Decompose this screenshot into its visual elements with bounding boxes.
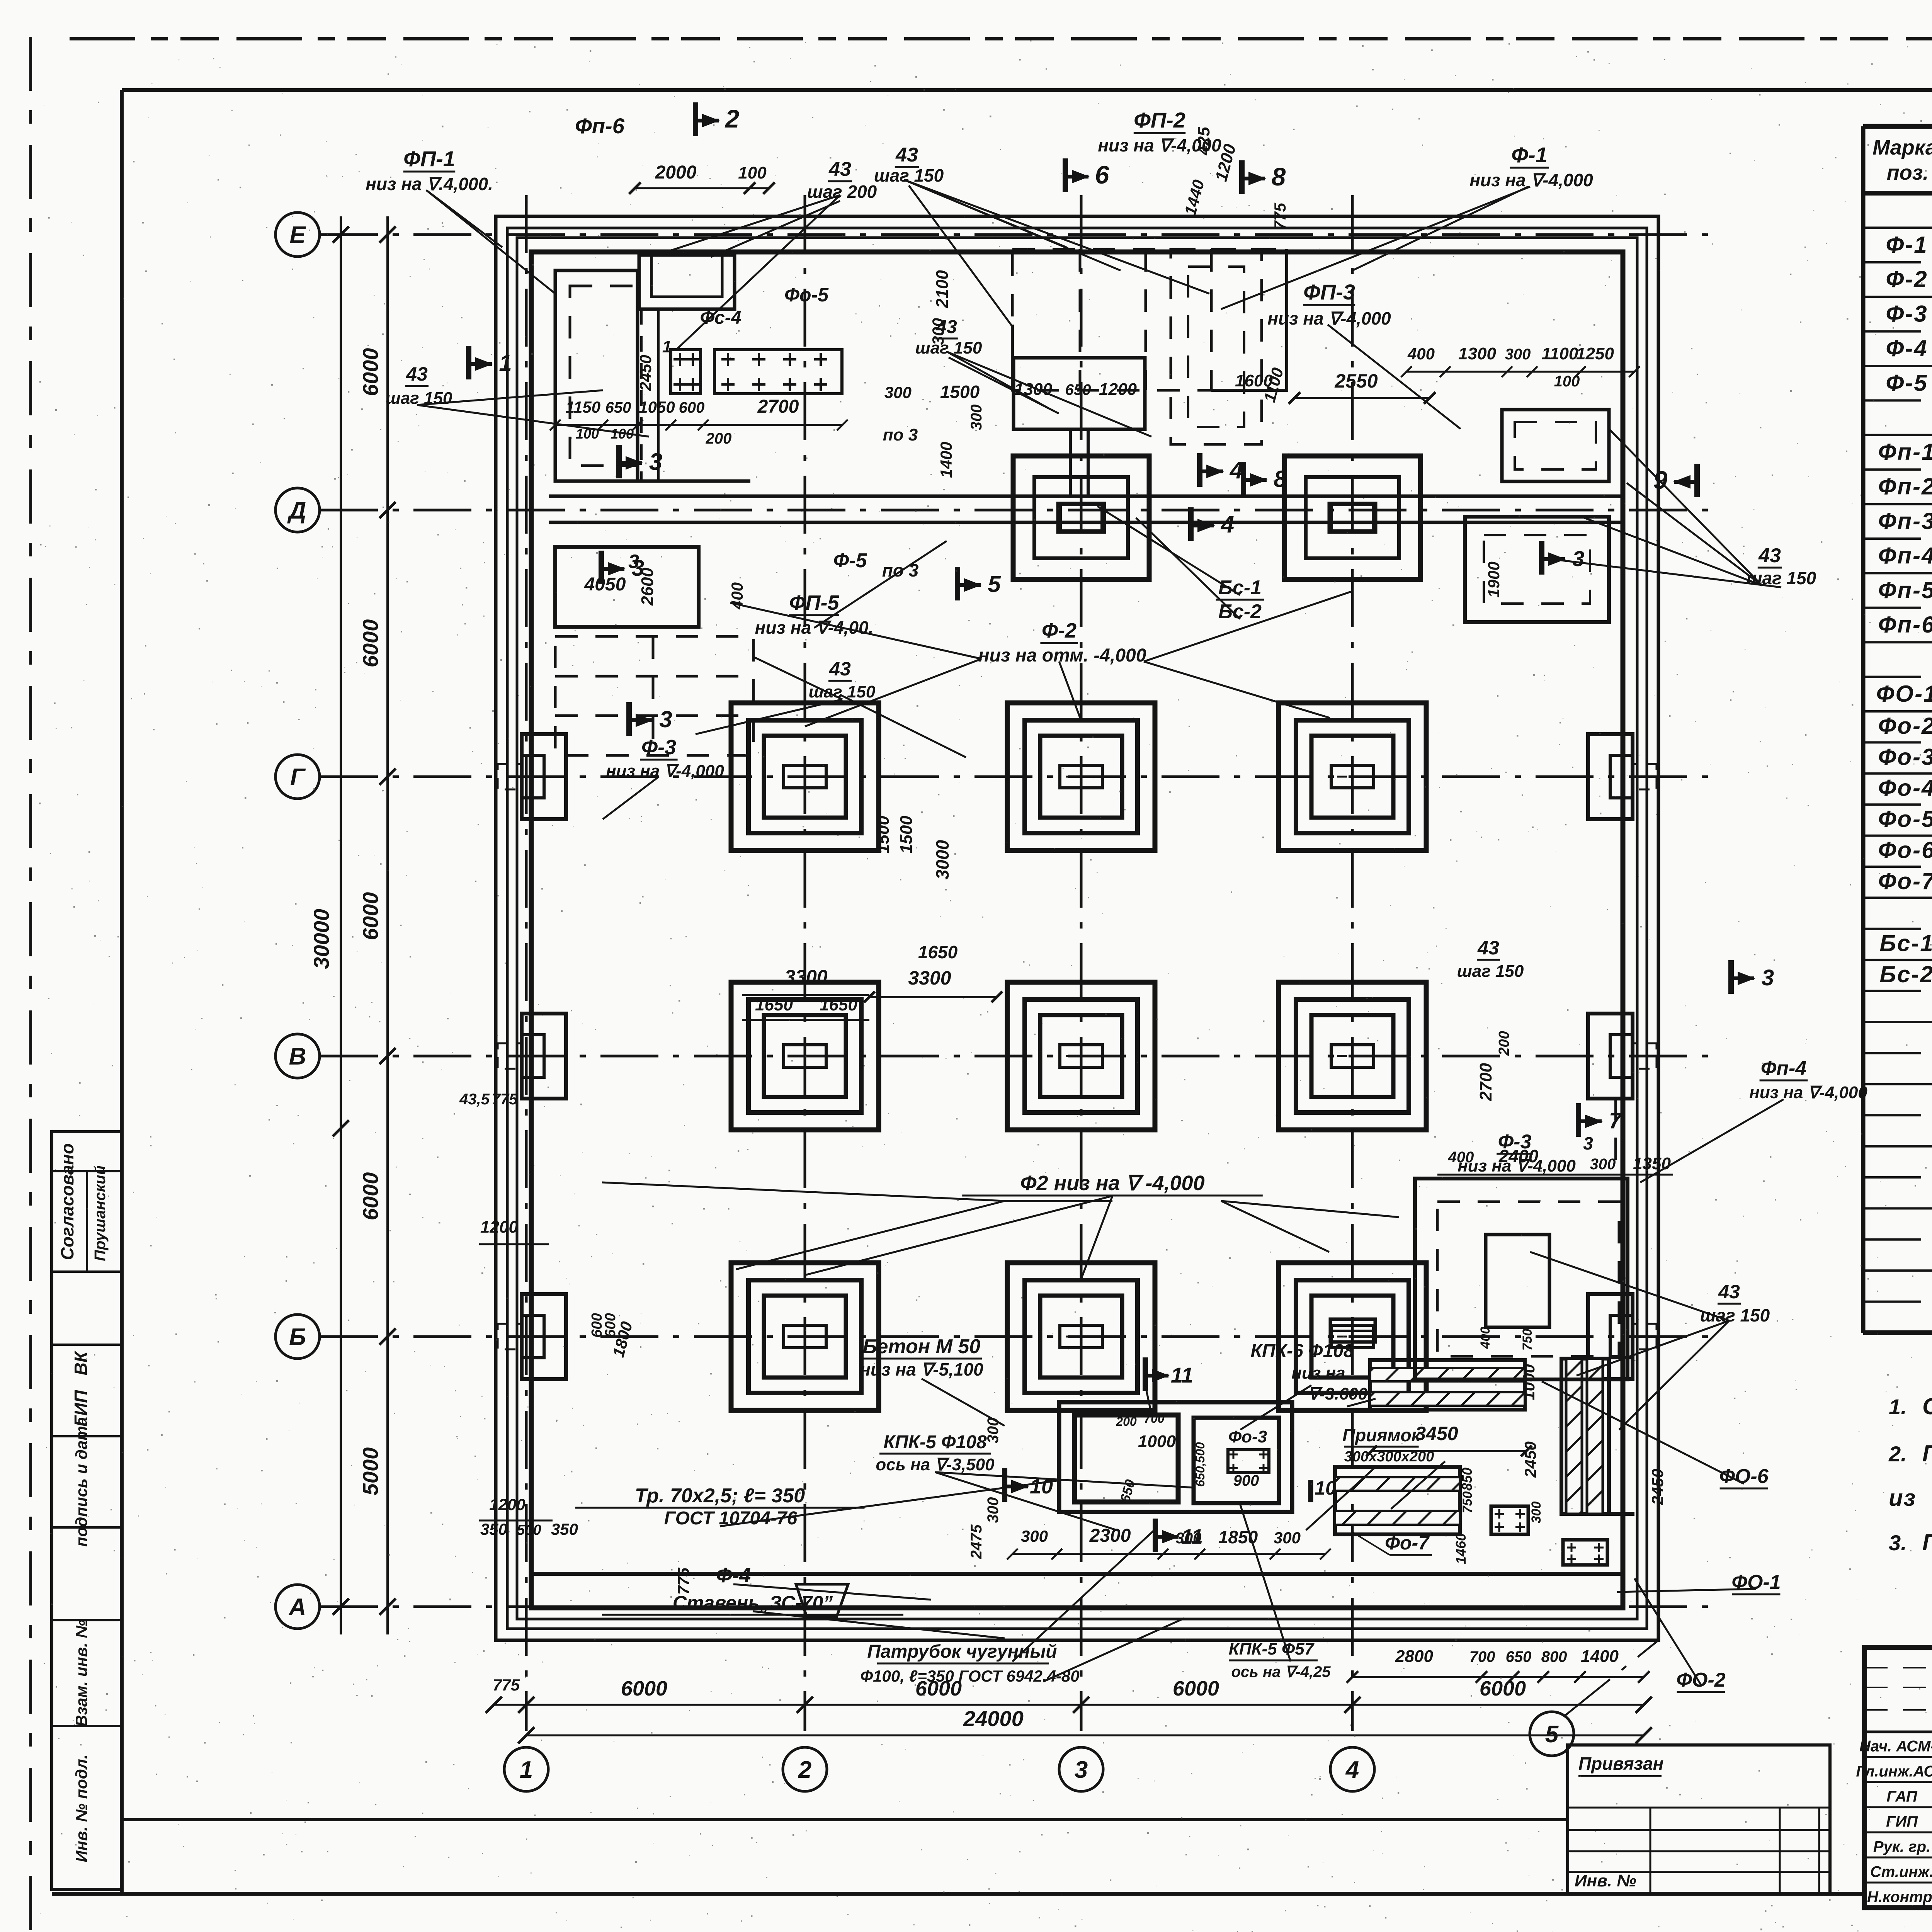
svg-text:5: 5 (988, 571, 1001, 597)
svg-text:Ф2 низ на ∇ -4,000: Ф2 низ на ∇ -4,000 (1020, 1172, 1204, 1195)
svg-text:200: 200 (1496, 1031, 1512, 1056)
svg-text:1150: 1150 (566, 398, 600, 416)
svg-text:низ на ∇.4,000.: низ на ∇.4,000. (366, 174, 493, 194)
svg-text:1500: 1500 (897, 816, 916, 854)
svg-text:Ф-4: Ф-4 (1886, 335, 1928, 361)
svg-text:1200: 1200 (489, 1495, 525, 1514)
svg-text:4050: 4050 (584, 574, 626, 595)
svg-text:2800: 2800 (1395, 1647, 1433, 1666)
svg-text:ФП-5: ФП-5 (789, 591, 839, 614)
svg-text:шаг 150: шаг 150 (1747, 568, 1816, 588)
svg-text:Фо-7: Фо-7 (1878, 868, 1932, 894)
svg-text:Ф-1: Ф-1 (1511, 143, 1548, 167)
svg-text:Фо-4: Фо-4 (1878, 775, 1932, 801)
svg-text:низ на ∇-4,00.: низ на ∇-4,00. (755, 617, 874, 638)
svg-text:Ф-5: Ф-5 (1886, 370, 1928, 396)
svg-text:Ф-3: Ф-3 (641, 736, 676, 759)
svg-text:600: 600 (679, 399, 705, 416)
svg-text:∇-3.600: ∇-3.600 (1308, 1384, 1368, 1403)
svg-text:200: 200 (706, 430, 732, 447)
svg-text:2450: 2450 (636, 355, 655, 391)
svg-text:1650: 1650 (820, 995, 857, 1014)
svg-text:100: 100 (1554, 373, 1580, 390)
svg-text:1300: 1300 (1014, 380, 1052, 399)
svg-text:100: 100 (611, 426, 634, 442)
svg-text:2450: 2450 (1521, 1441, 1539, 1478)
svg-text:2300: 2300 (1089, 1526, 1131, 1546)
svg-text:30000: 30000 (309, 909, 333, 969)
svg-text:300: 300 (929, 318, 947, 345)
svg-text:2400: 2400 (1498, 1146, 1539, 1166)
svg-text:3: 3 (1572, 546, 1584, 571)
svg-text:6000: 6000 (1480, 1677, 1526, 1700)
svg-text:Инв. № подл.: Инв. № подл. (72, 1754, 90, 1862)
svg-text:400: 400 (1448, 1149, 1474, 1166)
svg-text:Бс-2: Бс-2 (1879, 961, 1932, 987)
svg-text:1: 1 (499, 350, 512, 376)
svg-text:шаг 150: шаг 150 (874, 165, 944, 185)
svg-text:43: 43 (829, 658, 851, 680)
svg-text:Тр. 70х2,5; ℓ= 350: Тр. 70х2,5; ℓ= 350 (635, 1485, 805, 1507)
svg-text:ось на ∇-3,500: ось на ∇-3,500 (876, 1455, 995, 1474)
svg-text:Сечение 1-1 ÷ 9-9 см.л.АС-9,: Сечение 1-1 ÷ 9-9 см.л.АС-9, 10-10 ; 11-… (1922, 1393, 1932, 1419)
svg-text:1250: 1250 (1576, 344, 1614, 363)
svg-text:425: 425 (1194, 127, 1213, 156)
svg-text:низ на ∇-5,100: низ на ∇-5,100 (860, 1359, 983, 1379)
svg-text:400: 400 (1478, 1327, 1493, 1349)
svg-text:Поз. „43” см. ведомость дет: Поз. „43” см. ведомость деталей л. АС-10 (1922, 1529, 1932, 1555)
svg-text:Патрубок чугунный: Патрубок чугунный (867, 1641, 1057, 1662)
svg-text:Фо-3: Фо-3 (1878, 744, 1932, 770)
svg-text:Фо-5: Фо-5 (1878, 806, 1932, 832)
svg-text:Рук. гр.: Рук. гр. (1873, 1838, 1930, 1855)
svg-text:3.: 3. (1889, 1531, 1907, 1555)
svg-text:Е: Е (289, 222, 306, 248)
svg-text:1: 1 (662, 337, 672, 356)
svg-text:ФО-1: ФО-1 (1731, 1571, 1781, 1594)
svg-text:ФП-1: ФП-1 (403, 146, 455, 171)
svg-text:Привязан: Привязан (1578, 1753, 1663, 1774)
svg-text:1300: 1300 (1458, 344, 1496, 363)
svg-text:Фп-6: Фп-6 (575, 114, 625, 138)
svg-text:100: 100 (576, 426, 599, 442)
svg-text:11: 11 (1181, 1525, 1203, 1548)
svg-text:1500: 1500 (874, 816, 893, 854)
svg-text:2700: 2700 (757, 396, 799, 417)
svg-text:43: 43 (895, 144, 918, 166)
svg-text:43: 43 (1477, 937, 1499, 959)
svg-text:Бетон М 50: Бетон М 50 (863, 1335, 981, 1358)
svg-text:1650: 1650 (918, 942, 958, 962)
svg-text:2100: 2100 (933, 270, 952, 308)
svg-text:2: 2 (724, 104, 740, 133)
svg-text:750: 750 (1460, 1492, 1475, 1514)
svg-text:3: 3 (1762, 965, 1774, 990)
svg-text:Фп-4: Фп-4 (1761, 1057, 1807, 1080)
svg-text:300: 300 (1021, 1527, 1048, 1545)
svg-text:300: 300 (985, 1497, 1002, 1523)
svg-text:шаг 200: шаг 200 (807, 182, 877, 202)
svg-text:6000: 6000 (358, 348, 383, 396)
svg-text:Ф-5: Ф-5 (833, 549, 867, 572)
svg-text:43: 43 (1718, 1281, 1740, 1303)
svg-text:Фо-3: Фо-3 (1228, 1427, 1267, 1446)
svg-text:500: 500 (517, 1522, 541, 1538)
svg-text:Фо-6: Фо-6 (1878, 837, 1932, 863)
svg-text:850: 850 (1459, 1468, 1475, 1491)
svg-text:2.: 2. (1888, 1442, 1907, 1466)
svg-text:5000: 5000 (358, 1447, 383, 1496)
svg-text:9: 9 (1653, 466, 1668, 494)
svg-text:3000: 3000 (932, 840, 952, 879)
svg-text:3300: 3300 (784, 966, 827, 988)
svg-text:КПК-5 Ф57: КПК-5 Ф57 (1229, 1639, 1315, 1658)
svg-text:6000: 6000 (621, 1677, 667, 1700)
svg-text:6000: 6000 (1173, 1677, 1219, 1700)
svg-text:Д: Д (287, 497, 306, 524)
svg-text:11: 11 (1171, 1363, 1193, 1387)
svg-text:900: 900 (1233, 1472, 1259, 1489)
svg-text:Фп-5: Фп-5 (1878, 577, 1932, 603)
svg-text:1900: 1900 (1485, 561, 1503, 597)
svg-text:3: 3 (659, 706, 672, 732)
svg-text:Согласовано: Согласовано (57, 1143, 77, 1260)
svg-text:300: 300 (1529, 1502, 1544, 1524)
svg-text:Инв. №: Инв. № (1575, 1871, 1636, 1890)
svg-text:Фп-2: Фп-2 (1878, 474, 1932, 500)
svg-text:ФО-2: ФО-2 (1676, 1669, 1725, 1691)
svg-text:2475: 2475 (968, 1524, 985, 1560)
svg-text:шаг 150: шаг 150 (1457, 962, 1524, 981)
svg-text:Фп-6: Фп-6 (1878, 612, 1932, 638)
svg-text:шаг 150: шаг 150 (915, 338, 982, 357)
svg-text:3: 3 (628, 551, 639, 572)
svg-text:775: 775 (674, 1567, 692, 1595)
svg-text:Фп-3: Фп-3 (1878, 508, 1932, 534)
svg-text:Фо-5: Фо-5 (784, 284, 829, 306)
svg-text:10: 10 (1030, 1475, 1053, 1498)
svg-text:из бетона М 50, h= 100 мм: из бетона М 50, h= 100 мм. (1889, 1485, 1932, 1511)
svg-text:650: 650 (1065, 381, 1091, 398)
svg-text:1650: 1650 (755, 995, 793, 1014)
svg-text:8: 8 (1272, 162, 1286, 191)
svg-text:1200: 1200 (1099, 380, 1137, 399)
svg-text:Фо-2: Фо-2 (1878, 713, 1932, 739)
svg-text:400: 400 (728, 582, 746, 610)
svg-text:Прушанский: Прушанский (92, 1165, 109, 1261)
svg-text:Бс-2: Бс-2 (1218, 600, 1262, 623)
svg-text:шаг 150: шаг 150 (809, 682, 876, 701)
svg-text:2550: 2550 (1334, 370, 1378, 392)
svg-text:300: 300 (1274, 1529, 1301, 1547)
svg-text:1000: 1000 (1520, 1364, 1538, 1400)
svg-text:Б: Б (289, 1324, 306, 1350)
svg-text:Под фундаменты устроить бет: Под фундаменты устроить бетонную подгото… (1922, 1440, 1932, 1466)
svg-text:Ф-2: Ф-2 (1886, 266, 1928, 292)
svg-text:Фп-1: Фп-1 (1878, 439, 1932, 465)
svg-text:Ставень„ЗС-70”: Ставень„ЗС-70” (673, 1592, 833, 1614)
svg-text:Ф-4: Ф-4 (716, 1564, 751, 1587)
svg-text:Бс-1: Бс-1 (1879, 930, 1932, 956)
svg-text:2: 2 (798, 1757, 811, 1783)
svg-text:775: 775 (492, 1091, 518, 1108)
svg-text:низ на ∇-4,000: низ на ∇-4,000 (1469, 170, 1593, 190)
svg-text:650: 650 (1506, 1648, 1532, 1665)
svg-text:1100: 1100 (1542, 344, 1578, 363)
svg-text:ГОСТ 10704-76: ГОСТ 10704-76 (664, 1508, 798, 1529)
svg-text:43: 43 (828, 158, 851, 180)
svg-text:1850: 1850 (1218, 1527, 1258, 1547)
svg-text:6: 6 (1095, 160, 1110, 189)
svg-text:300: 300 (1590, 1156, 1616, 1173)
svg-text:Фс-4: Фс-4 (700, 308, 742, 328)
svg-text:750: 750 (1520, 1329, 1535, 1351)
svg-text:Приямок: Приямок (1342, 1425, 1421, 1445)
svg-text:ось на ∇-4,25: ось на ∇-4,25 (1231, 1663, 1331, 1680)
svg-text:Ф-1: Ф-1 (1886, 232, 1928, 258)
svg-text:2000: 2000 (655, 162, 697, 183)
svg-text:ФП-2: ФП-2 (1134, 108, 1185, 132)
svg-text:подпись и дата: подпись и дата (72, 1417, 90, 1547)
svg-text:шаг 150: шаг 150 (1700, 1305, 1770, 1325)
svg-text:43: 43 (406, 363, 428, 385)
svg-text:775: 775 (493, 1676, 520, 1694)
svg-text:КПК-5 Ф108: КПК-5 Ф108 (883, 1432, 986, 1452)
svg-text:7: 7 (1609, 1108, 1622, 1133)
svg-text:700: 700 (1144, 1412, 1165, 1425)
svg-text:низ на ∇-4,000: низ на ∇-4,000 (1267, 308, 1391, 328)
svg-text:3: 3 (1583, 1133, 1593, 1153)
svg-text:3300: 3300 (908, 967, 951, 989)
svg-text:Ф100, ℓ=350 ГОСТ 6942.4-80: Ф100, ℓ=350 ГОСТ 6942.4-80 (860, 1667, 1079, 1685)
svg-text:Марка,: Марка, (1872, 136, 1932, 159)
svg-text:низ на отм. -4,000: низ на отм. -4,000 (978, 645, 1146, 666)
svg-text:1460: 1460 (1453, 1533, 1469, 1564)
svg-text:Бс-1: Бс-1 (1218, 577, 1262, 599)
svg-text:1050: 1050 (639, 398, 675, 416)
svg-text:1500: 1500 (940, 382, 980, 402)
svg-text:650: 650 (605, 399, 631, 416)
svg-text:2600: 2600 (638, 568, 657, 606)
svg-text:300: 300 (1505, 346, 1531, 363)
svg-text:300: 300 (968, 405, 985, 430)
svg-text:3: 3 (1075, 1757, 1088, 1783)
svg-text:2700: 2700 (1476, 1063, 1495, 1101)
svg-text:800: 800 (1541, 1648, 1567, 1665)
svg-text:Г: Г (290, 764, 306, 791)
svg-text:по 3: по 3 (882, 560, 919, 580)
svg-text:ФП-3: ФП-3 (1303, 280, 1355, 304)
svg-text:1400: 1400 (1581, 1647, 1619, 1666)
svg-text:6000: 6000 (358, 892, 383, 940)
svg-text:3: 3 (649, 449, 662, 475)
svg-text:1200: 1200 (480, 1218, 518, 1236)
svg-text:8: 8 (1274, 466, 1287, 492)
svg-text:по 3: по 3 (883, 425, 918, 444)
svg-text:700: 700 (1469, 1648, 1495, 1665)
svg-text:ФО-6: ФО-6 (1719, 1465, 1769, 1488)
svg-text:Ст.инж.: Ст.инж. (1870, 1864, 1932, 1881)
svg-text:1000: 1000 (1138, 1432, 1176, 1451)
svg-text:ГИП ВК: ГИП ВК (71, 1350, 91, 1427)
svg-text:350: 350 (480, 1520, 507, 1538)
svg-text:1.: 1. (1889, 1395, 1907, 1419)
svg-text:Н.контр.: Н.контр. (1867, 1889, 1932, 1906)
svg-text:1350: 1350 (1633, 1154, 1671, 1173)
svg-text:775: 775 (1271, 202, 1289, 230)
svg-text:1400: 1400 (937, 442, 955, 478)
svg-text:200: 200 (1116, 1415, 1137, 1429)
svg-text:400: 400 (1407, 345, 1435, 363)
svg-text:300: 300 (985, 1418, 1002, 1444)
svg-text:24000: 24000 (963, 1706, 1024, 1731)
svg-text:поз.: поз. (1887, 161, 1929, 184)
svg-text:Гл.инж.АСМ: Гл.инж.АСМ (1856, 1763, 1932, 1780)
svg-text:1: 1 (520, 1757, 533, 1783)
svg-text:Ф-3: Ф-3 (1886, 301, 1928, 327)
svg-text:Нач. АСМ-1: Нач. АСМ-1 (1859, 1738, 1932, 1755)
svg-text:650,500: 650,500 (1193, 1442, 1207, 1487)
svg-text:350: 350 (551, 1520, 578, 1538)
svg-text:4: 4 (1345, 1757, 1359, 1783)
svg-text:6000: 6000 (358, 619, 383, 668)
svg-text:Фо-7: Фо-7 (1385, 1532, 1430, 1554)
svg-text:100: 100 (738, 163, 767, 182)
svg-text:А: А (288, 1594, 306, 1621)
svg-text:10: 10 (1315, 1477, 1336, 1499)
svg-text:6000: 6000 (358, 1172, 383, 1221)
svg-text:Ф-2: Ф-2 (1042, 619, 1077, 642)
svg-text:43,5: 43,5 (459, 1091, 490, 1108)
svg-text:КПК-6 Ф108: КПК-6 Ф108 (1250, 1341, 1354, 1361)
svg-text:ГАП: ГАП (1886, 1788, 1917, 1805)
svg-text:шаг 150: шаг 150 (386, 389, 452, 408)
svg-text:низ на ∇-4,000: низ на ∇-4,000 (606, 762, 724, 781)
svg-text:4: 4 (1220, 511, 1234, 538)
svg-text:Фп-4: Фп-4 (1878, 543, 1932, 568)
svg-text:В: В (289, 1043, 306, 1070)
svg-text:низ на ∇-4,000: низ на ∇-4,000 (1749, 1083, 1867, 1102)
svg-text:3450: 3450 (1415, 1423, 1458, 1444)
svg-text:Взам. инв. №: Взам. инв. № (72, 1619, 90, 1726)
svg-text:ФО-1: ФО-1 (1876, 681, 1932, 707)
svg-text:2450: 2450 (1648, 1469, 1667, 1505)
svg-text:низ на: низ на (1291, 1364, 1345, 1383)
svg-text:300: 300 (884, 383, 912, 401)
svg-text:43: 43 (1758, 544, 1781, 567)
